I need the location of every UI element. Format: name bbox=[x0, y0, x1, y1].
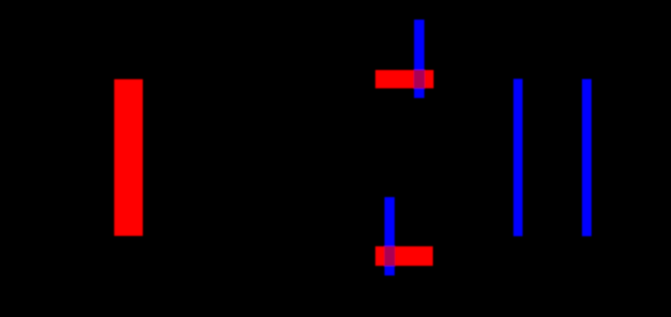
node N2: overlap of M2 over P3 bbox=[385, 246, 395, 265]
poly wire P3 (lower horizontal red bar) bbox=[375, 246, 433, 265]
metal1 wire M1 (upper vertical blue bar) bbox=[414, 20, 424, 98]
metal1 wire M2 (lower vertical blue bar) bbox=[385, 197, 395, 275]
poly wire P2 (upper horizontal red bar) bbox=[375, 70, 433, 88]
metal1 wire M4 (right vertical blue bar, outer) bbox=[582, 79, 592, 236]
poly wire P1 (left vertical red bar) bbox=[114, 79, 143, 236]
metal1 wire M3 (right vertical blue bar, inner) bbox=[513, 79, 522, 236]
node N1: overlap of M1 over P2 bbox=[414, 70, 424, 88]
